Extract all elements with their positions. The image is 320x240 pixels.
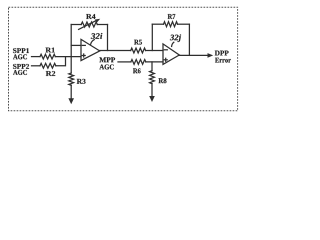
wire U2 output to DPP Error arrow [179, 54, 208, 56]
label R5 [134, 40, 142, 45]
wire node D down to R8 [151, 62, 153, 71]
wire R2 up to node B [56, 57, 66, 66]
resistor R6 [131, 60, 146, 65]
op-amp U1 plus sign [82, 55, 85, 57]
label R7 [168, 14, 176, 19]
label R1 [46, 48, 55, 53]
resistor R1 [40, 54, 55, 59]
op-amp U2 plus sign [164, 59, 167, 61]
op-amp U2 label leader line [172, 42, 174, 46]
resistor R7 [164, 22, 178, 27]
resistor R7 feedback top wires [152, 23, 163, 25]
label R3 [77, 79, 86, 84]
wire R7 right leg down to U2 output [188, 24, 190, 55]
wire SPP2 AGC lead [32, 65, 41, 67]
op-amp U1 reference 32i [91, 33, 103, 39]
resistor R5 [131, 48, 146, 53]
resistor R3 [69, 73, 74, 85]
ground arrow below R3 [68, 98, 74, 104]
label SPP1 line1 [13, 48, 29, 53]
wire R8 to ground arrow [151, 84, 153, 97]
label R6 [133, 68, 141, 73]
wire U1 output to R5 [100, 50, 131, 52]
label SPP2 line2 AGC [13, 70, 27, 75]
label DPP line1 [215, 51, 229, 56]
op-amp U2 reference 32j [170, 34, 181, 42]
op-amp U2 minus sign [164, 49, 167, 51]
label R2 [46, 71, 55, 76]
resistor R4 [81, 22, 97, 27]
label MPP line2 AGC [99, 65, 113, 70]
op-amp U1 label leader line [91, 40, 95, 45]
wire MPP AGC lead [118, 61, 131, 63]
label SPP1 line2 AGC [13, 54, 27, 59]
resistor R2 [40, 63, 56, 68]
label R8 [159, 78, 167, 83]
ground arrow below R8 [149, 96, 155, 102]
wire R1 to non-inverting input of U1 (node B) [55, 56, 81, 58]
dashed border frame [9, 7, 238, 111]
wire R6 to non-inverting input of U2 (node D) [146, 61, 163, 63]
op-amp U1 minus sign [82, 44, 85, 46]
wire R4 right leg down to U1 output [107, 25, 109, 51]
label SPP2 line1 [13, 64, 29, 69]
op-amp U1 (32i) triangle [81, 39, 100, 60]
DPP Error output arrowhead [208, 53, 214, 58]
wire R7 left leg down to node C [151, 24, 153, 50]
label DPP line2 Error [215, 58, 231, 63]
label MPP line1 [99, 57, 115, 62]
wire R5 to inverting input of U2 (node C) [146, 50, 163, 52]
resistor R8 [150, 71, 155, 84]
op-amp U2 (32j) triangle [163, 44, 179, 65]
wire SPP1 AGC lead [32, 56, 41, 58]
resistor R4 variable arrow [79, 20, 97, 29]
wire inverting input line of U1 [71, 44, 81, 46]
label R4 [86, 14, 95, 19]
resistor R4 feedback top wires [71, 24, 81, 26]
wire feedback node vertical (R4 left leg down to R3) [70, 25, 72, 74]
wire R3 to ground arrow [70, 85, 72, 98]
